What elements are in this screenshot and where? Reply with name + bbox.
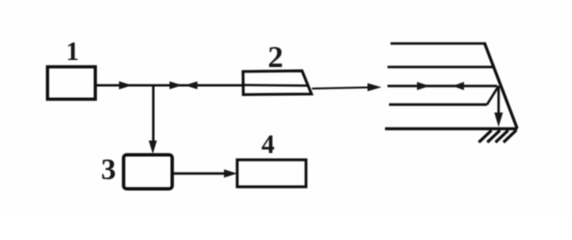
box 1 (laser source): [48, 67, 96, 99]
box 3 (detector): [124, 155, 173, 189]
svg-text:4: 4: [261, 129, 274, 159]
arrowhead pair right-pointing: [170, 81, 183, 89]
ground hatch 4: [504, 130, 517, 142]
wire junction down to box3: [152, 85, 154, 148]
svg-text:3: 3: [101, 153, 116, 186]
arrowhead of beam arrow: [368, 83, 382, 91]
target wedge line 1: [391, 42, 486, 45]
ground hatch 1: [479, 130, 492, 142]
arrowhead left on beam line 3: [453, 82, 465, 90]
element 2 (optical plate): [243, 71, 312, 95]
ground hatch 2: [487, 130, 500, 142]
arrowhead right on beam line 3: [417, 82, 430, 90]
arrowhead pair left-pointing: [185, 81, 198, 89]
reflected beam arrow down: [497, 86, 499, 115]
target wedge line 2: [388, 66, 495, 69]
target wedge beam line 3: [388, 85, 498, 87]
svg-text:2: 2: [268, 39, 284, 74]
target wedge slanted edge: [484, 43, 517, 129]
arrowhead down into box3: [149, 141, 157, 155]
ground hatch 3: [496, 130, 509, 142]
wire box3 to box4: [172, 172, 228, 174]
box 4 (counter): [237, 160, 306, 187]
diagonal connector line4 to vertex: [487, 86, 499, 105]
beam line through element 2: [243, 84, 308, 87]
svg-text:1: 1: [66, 37, 79, 66]
arrowhead right on wire: [119, 81, 132, 89]
beam arrow element2 to target: [312, 87, 372, 88]
wire box1 to element2: [95, 84, 243, 86]
arrowhead into box4: [224, 169, 237, 177]
arrowhead down of reflected beam: [494, 113, 503, 128]
ground base line: [385, 127, 518, 130]
target wedge line 4: [389, 103, 487, 106]
